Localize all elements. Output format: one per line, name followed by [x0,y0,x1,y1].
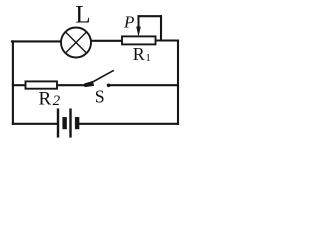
battery short thick plate 2 [75,117,79,129]
wiper loop right wire [160,16,162,40]
wire left vertical [12,41,14,123]
wire middle left segment [13,84,26,86]
svg-text:1: 1 [145,52,151,64]
svg-text:L: L [75,1,90,28]
wire right vertical [177,41,179,124]
svg-text:R: R [39,89,52,110]
wiper loop top wire [139,15,162,17]
wire top left segment [12,40,60,42]
wire switch to right vertical [111,84,179,86]
svg-text:S: S [95,87,105,107]
svg-text:P: P [123,13,134,32]
rheostat R1 box [122,36,156,44]
wire bottom left segment [13,123,58,125]
wire lamp to R1 [92,40,122,42]
wire R2 to switch [57,84,86,86]
battery short thick plate 1 [63,117,67,129]
switch S contact dot [107,84,111,88]
switch S pivot blade [85,82,94,87]
battery long plate 2 [70,109,72,138]
rheostat wiper arrow [137,16,141,35]
resistor R2 box [26,81,58,88]
wire battery to right vertical [79,123,179,125]
battery cell plates [57,109,79,138]
wire R1 to right corner [156,39,179,41]
lamp L symbol [61,28,91,58]
svg-text:R: R [133,44,145,64]
battery long plate 1 [57,109,59,138]
switch S lever [89,70,114,84]
svg-text:2: 2 [53,93,61,109]
